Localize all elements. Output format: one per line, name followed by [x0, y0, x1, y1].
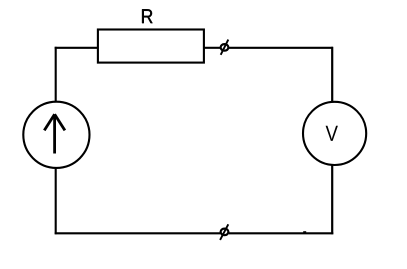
resistor R1 body [98, 30, 204, 63]
current source I1 arrow shaft [53, 115, 56, 154]
resistor R1 value label R [142, 9, 152, 23]
terminal node top (circle with slash) [221, 40, 229, 55]
terminal node bottom (circle with slash) [220, 224, 228, 240]
current source I1 arrowhead left barb [44, 114, 54, 130]
wire right vertical upper [331, 47, 333, 102]
wire right vertical lower [331, 166, 333, 235]
wire bottom-left horizontal segment [55, 232, 221, 234]
wire top-left horizontal segment [55, 47, 98, 49]
junction nick on bottom wire [303, 231, 306, 233]
voltmeter V1 circle [303, 102, 366, 165]
wire left vertical upper [55, 47, 57, 103]
wire resistor to top terminal [205, 47, 221, 49]
current source I1 circle [23, 102, 89, 168]
voltmeter V1 label V [326, 126, 338, 141]
current source I1 arrowhead right barb [55, 114, 65, 130]
wire bottom-right horizontal segment [229, 232, 333, 234]
wire left vertical lower [55, 168, 57, 235]
wire top terminal to right corner [229, 47, 333, 49]
